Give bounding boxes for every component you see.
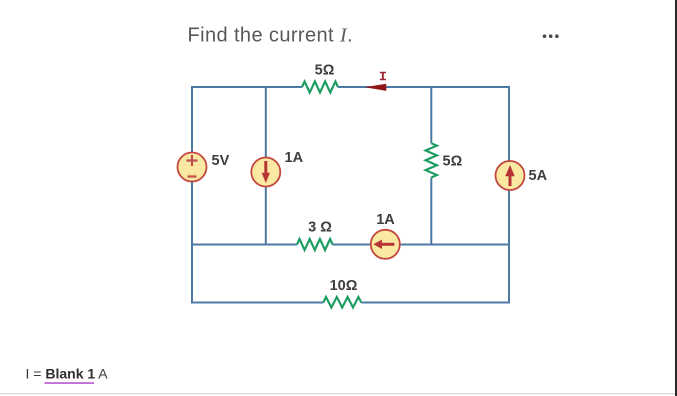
svg-text:5A: 5A xyxy=(529,168,548,184)
label 5ohm top xyxy=(315,63,335,79)
wire left xyxy=(191,86,193,304)
resistor 5ohm vertical xyxy=(426,143,437,177)
svg-text:1A: 1A xyxy=(376,212,395,228)
wire bottom xyxy=(192,302,509,304)
svg-text:I = Blank 1 A: I = Blank 1 A xyxy=(26,366,109,382)
wire branch C (5 ohm vertical) xyxy=(430,87,432,245)
svg-text:3 Ω: 3 Ω xyxy=(308,220,332,236)
label 10ohm xyxy=(330,278,358,294)
resistor 10ohm xyxy=(323,297,361,308)
svg-text:Find the current I.: Find the current I. xyxy=(188,25,353,47)
menu dots xyxy=(543,34,559,38)
current source 1A left xyxy=(371,230,400,259)
right edge border xyxy=(675,0,677,396)
current arrow I xyxy=(365,84,387,91)
wire middle xyxy=(192,244,509,246)
label 5A xyxy=(529,168,548,184)
svg-text:5Ω: 5Ω xyxy=(443,154,463,170)
current source 5A up xyxy=(496,161,525,190)
svg-text:5Ω: 5Ω xyxy=(315,63,335,79)
label I xyxy=(380,72,386,81)
wire top xyxy=(192,86,509,88)
answer text xyxy=(26,366,109,382)
svg-text:10Ω: 10Ω xyxy=(330,278,358,294)
wire branch B (1A source) xyxy=(265,87,267,245)
label 5V xyxy=(212,153,230,169)
voltage source 5V xyxy=(178,153,207,182)
label 5ohm vertical xyxy=(443,154,463,170)
title text xyxy=(188,25,353,47)
answer underline xyxy=(45,382,95,384)
label 1A middle xyxy=(376,212,395,228)
bottom divider line xyxy=(0,393,677,394)
svg-text:5V: 5V xyxy=(212,153,230,169)
wire right xyxy=(508,86,510,304)
current source 1A down xyxy=(251,158,280,187)
svg-text:1A: 1A xyxy=(285,150,304,166)
resistor 5ohm top xyxy=(302,82,338,93)
label 3ohm xyxy=(308,220,332,236)
label 1A left branch xyxy=(285,150,304,166)
resistor 3ohm xyxy=(297,239,333,250)
